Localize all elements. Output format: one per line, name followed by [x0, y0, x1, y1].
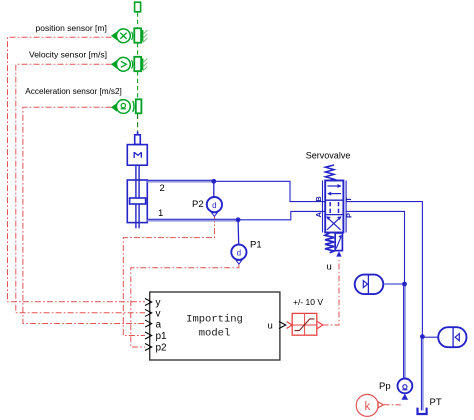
svg-text:d: d	[212, 201, 216, 210]
svg-text:u: u	[268, 321, 273, 332]
svg-text:p2: p2	[156, 343, 168, 354]
svg-text:Pp: Pp	[379, 381, 391, 392]
svg-text:y: y	[156, 298, 161, 309]
svg-text:d: d	[237, 249, 241, 258]
svg-text:P: P	[345, 213, 354, 218]
svg-text:1: 1	[158, 208, 163, 219]
svg-text:+/- 10 V: +/- 10 V	[293, 297, 323, 307]
svg-text:a: a	[156, 319, 162, 330]
svg-text:Σ: Σ	[131, 152, 143, 159]
svg-text:P1: P1	[250, 240, 262, 251]
svg-text:model: model	[199, 328, 231, 340]
svg-text:PT: PT	[430, 397, 442, 408]
svg-text:Acceleration sensor [m/s2]: Acceleration sensor [m/s2]	[25, 87, 121, 96]
svg-text:v: v	[156, 308, 161, 319]
svg-text:Importing: Importing	[186, 314, 243, 326]
svg-text:u: u	[327, 262, 332, 273]
svg-text:B: B	[314, 196, 323, 202]
svg-text:2: 2	[160, 183, 165, 194]
svg-text:p1: p1	[156, 331, 168, 342]
svg-text:T: T	[344, 197, 353, 202]
svg-text:position sensor [m]: position sensor [m]	[36, 23, 107, 33]
svg-text:P2: P2	[192, 199, 204, 210]
svg-text:Servovalve: Servovalve	[306, 150, 351, 160]
svg-text:k: k	[365, 401, 371, 413]
svg-text:A: A	[314, 212, 323, 218]
svg-text:Velocity sensor [m/s]: Velocity sensor [m/s]	[29, 49, 107, 59]
